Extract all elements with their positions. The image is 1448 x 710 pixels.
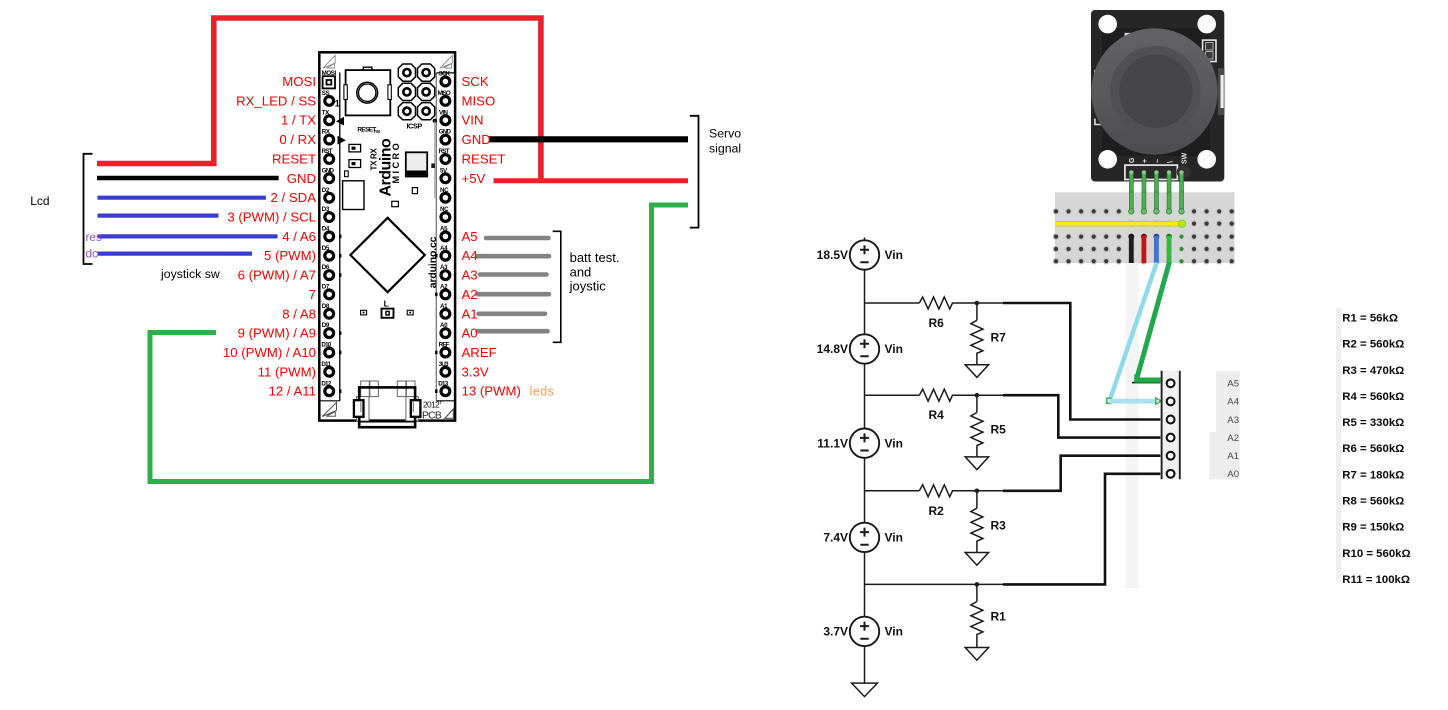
svg-text:1: 1 <box>335 98 340 108</box>
svg-text:R4 = 560kΩ: R4 = 560kΩ <box>1342 391 1404 403</box>
svg-text:SCK: SCK <box>462 74 489 89</box>
yellow wire <box>1055 221 1182 226</box>
voltage source V1 18.5V <box>850 240 879 269</box>
svg-text:and: and <box>570 265 592 280</box>
resistor R1 vertical <box>971 584 983 647</box>
svg-text:AREF: AREF <box>462 345 497 360</box>
svg-text:13 (PWM): 13 (PWM) <box>462 384 521 399</box>
svg-text:SW: SW <box>1182 152 1189 164</box>
svg-text:VIN: VIN <box>462 113 484 128</box>
svg-text:batt test.: batt test. <box>570 250 620 265</box>
hole grid <box>1053 208 1235 264</box>
svg-text:6 (PWM) / A7: 6 (PWM) / A7 <box>238 268 316 283</box>
svg-text:RX_LED / SS: RX_LED / SS <box>236 93 316 108</box>
small part below MICRO <box>412 188 417 194</box>
node dot 4 <box>975 582 980 587</box>
svg-text:SCK: SCK <box>439 71 451 78</box>
svg-text:A5: A5 <box>440 226 448 233</box>
wire lead A5 <box>1132 382 1160 384</box>
svg-text:RESET: RESET <box>272 152 316 167</box>
svg-text:GND: GND <box>322 167 335 174</box>
wire black GND to Lcd <box>97 176 279 181</box>
svg-text:A3: A3 <box>440 264 448 271</box>
svg-text:A5: A5 <box>462 229 478 244</box>
svg-text:1 / TX: 1 / TX <box>281 113 316 128</box>
joystick cap top <box>1119 54 1192 127</box>
svg-text:GND: GND <box>462 132 491 147</box>
divider labels <box>817 248 1007 638</box>
svg-text:D4: D4 <box>322 226 330 233</box>
svg-text:11.1V: 11.1V <box>817 436 848 450</box>
svg-text:Vin: Vin <box>885 436 903 450</box>
svg-text:A4: A4 <box>440 245 448 252</box>
svg-text:3 (PWM) / SCL: 3 (PWM) / SCL <box>227 210 316 225</box>
small passive left <box>345 171 349 177</box>
ground R7 <box>965 365 988 378</box>
joystick base square <box>1102 28 1210 156</box>
svg-text:A5: A5 <box>1227 379 1239 390</box>
gray trace line <box>434 121 436 198</box>
svg-text:R10 = 560kΩ: R10 = 560kΩ <box>1342 548 1410 560</box>
bracket servo signal <box>690 116 699 228</box>
resistor R3 vertical <box>971 491 983 553</box>
header pin A1 <box>1167 452 1175 460</box>
wire gray A1 <box>479 311 546 316</box>
ground R5 <box>965 457 988 470</box>
svg-text:5 (PWM): 5 (PWM) <box>264 248 316 263</box>
svg-text:\: \ <box>1168 161 1175 163</box>
wire green servo to pin9 loop <box>150 205 688 482</box>
pin pad MOSI (square) <box>323 76 335 88</box>
resistor R7 vertical <box>971 303 983 365</box>
pin labels rotated <box>1129 152 1189 164</box>
wire gray A0 <box>478 329 548 334</box>
node dot 3 <box>975 489 980 494</box>
mounting hole BR <box>1197 150 1216 169</box>
svg-text:NC: NC <box>440 206 449 213</box>
svg-text:R8 = 560kΩ: R8 = 560kΩ <box>1342 496 1404 508</box>
wire red +5V <box>494 178 689 183</box>
header pin A5 <box>1167 379 1175 387</box>
svg-text:R1: R1 <box>991 609 1007 623</box>
wire blue 5/PWM <box>98 252 253 256</box>
left pin strip line <box>339 73 341 401</box>
svg-text:A4: A4 <box>462 248 478 263</box>
wire rail V3-V4 <box>864 458 866 523</box>
wire green diagonal from breadboard <box>1137 263 1170 379</box>
svg-text:NC: NC <box>440 187 449 194</box>
svg-text:R5 = 330kΩ: R5 = 330kΩ <box>1342 417 1404 429</box>
svg-text:3.3V: 3.3V <box>462 364 489 379</box>
svg-text:+: + <box>1142 159 1149 163</box>
svg-text:14.8V: 14.8V <box>817 342 848 356</box>
header pin A3 <box>1167 416 1175 424</box>
pin tips in breadboard <box>1129 209 1134 214</box>
svg-text:GND: GND <box>439 129 452 136</box>
light strip behind header labels <box>1216 371 1240 432</box>
header pin A4 <box>1167 398 1175 406</box>
svg-text:signal: signal <box>709 142 741 156</box>
svg-text:18.5V: 18.5V <box>817 248 848 262</box>
svg-text:joystick sw: joystick sw <box>160 267 220 281</box>
pad left of L <box>361 310 367 315</box>
joystick silkscreen marks <box>1126 34 1138 40</box>
left pin holes SS..D12 <box>325 97 334 396</box>
svg-text:A1: A1 <box>440 303 448 310</box>
branch 4 wire <box>865 583 1006 585</box>
svg-text:Vin: Vin <box>885 531 903 545</box>
header labels <box>1227 379 1239 481</box>
svg-text:D10: D10 <box>321 342 332 349</box>
fiducial triangle top-left <box>323 55 335 68</box>
header strip background <box>1163 371 1179 480</box>
bracket batt test <box>553 231 561 342</box>
svg-text:A0: A0 <box>462 326 478 341</box>
svg-text:8 / A8: 8 / A8 <box>282 306 316 321</box>
wire gray A3 <box>480 272 547 277</box>
svg-text:Vin: Vin <box>885 625 903 639</box>
wire node1 to A3 <box>1003 303 1160 420</box>
svg-text:R2 = 560kΩ: R2 = 560kΩ <box>1342 339 1404 351</box>
wire to main ground <box>864 646 866 683</box>
svg-text:RX: RX <box>322 129 331 136</box>
header pin A0 <box>1167 470 1175 478</box>
fiducial triangle bottom-right <box>445 409 454 418</box>
svg-text:Lcd: Lcd <box>30 194 49 208</box>
side component white <box>1203 40 1216 61</box>
svg-text:9 (PWM) / A9: 9 (PWM) / A9 <box>238 326 316 341</box>
crystal <box>343 181 364 210</box>
wire gray A5 <box>486 236 549 241</box>
LED TX <box>349 144 361 152</box>
wire blue 4/A6 <box>98 234 278 238</box>
svg-text:Vin: Vin <box>885 342 903 356</box>
header pin A2 <box>1167 434 1175 442</box>
svg-text:leds: leds <box>530 385 555 399</box>
pad right of L <box>407 310 413 315</box>
LED L <box>382 309 394 318</box>
silkscreen tiny labels right <box>438 71 452 388</box>
svg-text:3U3: 3U3 <box>439 361 450 368</box>
connector blob <box>1177 165 1191 179</box>
joystick PCB <box>1091 10 1224 182</box>
svg-text:D7: D7 <box>322 284 330 291</box>
wire red RESET loop to +5V <box>97 18 541 181</box>
svg-text:RST: RST <box>322 148 333 155</box>
svg-text:MISO: MISO <box>462 93 496 108</box>
right pin strip line <box>435 73 437 401</box>
breadboard body <box>1055 192 1235 263</box>
arrow TX <box>336 117 344 126</box>
svg-text:A2: A2 <box>440 284 448 291</box>
joystick cap ring <box>1110 46 1201 137</box>
svg-text:TM: TM <box>374 129 381 134</box>
wire rail V2-V3 <box>864 364 866 429</box>
mounting hole TR <box>1197 15 1216 34</box>
svg-text:A2: A2 <box>1227 433 1239 444</box>
wire gray A2 <box>478 292 550 297</box>
svg-text:10 (PWM) / A10: 10 (PWM) / A10 <box>223 345 316 360</box>
svg-text:arduino.cc: arduino.cc <box>428 236 439 288</box>
svg-text:R7: R7 <box>991 331 1007 345</box>
bracket Lcd <box>84 154 93 264</box>
svg-text:2 / SDA: 2 / SDA <box>271 190 317 205</box>
header strip lines <box>1161 371 1163 480</box>
svg-text:R3: R3 <box>991 518 1007 532</box>
svg-text:Vin: Vin <box>885 248 903 262</box>
svg-text:R7 = 180kΩ: R7 = 180kΩ <box>1342 469 1404 481</box>
LED RX <box>349 160 361 168</box>
svg-text:D11: D11 <box>321 361 331 368</box>
svg-text:G: G <box>1129 157 1136 163</box>
svg-text:joystic: joystic <box>569 279 607 294</box>
voltage source V5 3.7V <box>850 617 879 646</box>
svg-text:7.4V: 7.4V <box>823 531 848 545</box>
joystick cap outer <box>1091 28 1217 154</box>
wire rail V1-V2 <box>864 270 866 335</box>
svg-text:A4: A4 <box>1227 397 1239 408</box>
right bump <box>1218 68 1225 115</box>
right pin holes SCK..D13 <box>441 77 450 396</box>
wire rail V4-V5 <box>864 552 866 617</box>
fiducial triangle top-right <box>440 55 452 68</box>
hookup wire red <box>1141 234 1147 240</box>
wire gray A4 <box>477 254 549 259</box>
voltage source V2 14.8V <box>850 334 879 363</box>
yellow wire end dot <box>1178 220 1185 227</box>
connector outline <box>1125 165 1178 179</box>
ground R1 <box>965 648 988 661</box>
wire blue 2/SDA <box>98 196 266 200</box>
USB connector <box>354 381 421 427</box>
svg-text:GND: GND <box>287 171 316 186</box>
ground R3 <box>965 553 988 566</box>
svg-text:RST: RST <box>439 148 450 155</box>
svg-text:VIN: VIN <box>439 109 448 116</box>
svg-text:R4: R4 <box>929 408 945 422</box>
svg-text:A1: A1 <box>1227 451 1239 462</box>
svg-text:D12: D12 <box>321 380 332 387</box>
svg-text:A2: A2 <box>462 287 478 302</box>
svg-text:D13: D13 <box>438 380 449 387</box>
svg-text:R3 = 470kΩ: R3 = 470kΩ <box>1342 365 1404 377</box>
wire node4 to A0 <box>1003 474 1160 585</box>
voltage source V4 7.4V <box>850 523 879 552</box>
joystick pins (green) <box>1129 170 1183 193</box>
arrow RX <box>338 136 346 145</box>
small part right of crystal <box>392 201 399 206</box>
svg-text:R1 = 56kΩ: R1 = 56kΩ <box>1342 313 1398 325</box>
light strip left of R table <box>1336 308 1342 579</box>
mounting hole TL <box>1098 15 1117 34</box>
svg-text:MICRO: MICRO <box>391 141 401 184</box>
wire blue 3/SCL <box>98 214 219 218</box>
svg-text:+5V: +5V <box>462 171 486 186</box>
svg-text:R6 = 560kΩ: R6 = 560kΩ <box>1342 443 1404 455</box>
wire cyan diagonal from breadboard <box>1111 263 1157 398</box>
svg-text:D6: D6 <box>322 264 330 271</box>
svg-text:D5: D5 <box>322 245 330 252</box>
hookup wire blue <box>1154 234 1160 240</box>
mounting hole BL <box>1098 150 1117 169</box>
node dot 1 <box>975 301 980 306</box>
voltage source V3 11.1V <box>850 429 879 458</box>
via dot <box>433 119 437 123</box>
board outline <box>319 52 455 420</box>
svg-text:R5: R5 <box>991 423 1007 437</box>
svg-text:~: ~ <box>1155 159 1162 163</box>
pin nubs <box>339 235 438 393</box>
svg-text:SS: SS <box>322 90 330 97</box>
svg-text:R2: R2 <box>929 504 945 518</box>
svg-text:REF: REF <box>439 342 450 349</box>
svg-text:2012⌜: 2012⌜ <box>423 400 443 410</box>
chip U1 <box>406 152 427 176</box>
svg-text:R9 = 150kΩ: R9 = 150kΩ <box>1342 522 1404 534</box>
wire green horizontal to A5 <box>1134 374 1160 383</box>
svg-text:R11 = 100kΩ: R11 = 100kΩ <box>1342 574 1410 586</box>
svg-text:L: L <box>384 299 389 309</box>
svg-text:MISO: MISO <box>438 90 451 97</box>
svg-text:A0: A0 <box>1227 469 1239 480</box>
ICSP header <box>398 64 434 120</box>
svg-text:R6: R6 <box>929 316 945 330</box>
svg-text:D3: D3 <box>322 206 330 213</box>
wire node3 to A1 <box>1003 456 1160 491</box>
wire main rail top stub <box>864 238 866 241</box>
light strip under breadboard <box>1126 263 1139 588</box>
svg-text:D9: D9 <box>322 322 330 329</box>
connection wires to header <box>1003 303 1160 584</box>
joystick pins over breadboard <box>1129 192 1183 210</box>
hookup wire black <box>1128 234 1134 240</box>
svg-text:A1: A1 <box>462 306 478 321</box>
diamond <box>350 218 424 292</box>
svg-text:12 / A11: 12 / A11 <box>269 384 316 399</box>
svg-text:D2: D2 <box>322 187 330 194</box>
svg-text:ICSP: ICSP <box>407 122 423 131</box>
svg-text:3.7V: 3.7V <box>823 625 848 639</box>
fiducial triangle bottom-left <box>322 403 336 417</box>
svg-text:Servo: Servo <box>709 127 741 141</box>
silkscreen tiny labels left <box>321 70 336 388</box>
svg-text:dc: dc <box>86 246 99 260</box>
branch 3 wire + resistor R2 <box>865 485 1005 497</box>
small part right of chip <box>431 163 435 168</box>
ground main <box>852 683 878 697</box>
svg-text:7: 7 <box>309 287 316 302</box>
svg-text:A3: A3 <box>462 268 478 283</box>
branch 1 wire + resistor R6 <box>865 297 1005 309</box>
svg-text:0 / RX: 0 / RX <box>279 132 316 147</box>
svg-text:A3: A3 <box>1227 415 1239 426</box>
wire cyan horizontal to A4 <box>1107 398 1111 403</box>
hookup wire green <box>1166 234 1172 240</box>
svg-text:D8: D8 <box>322 303 330 310</box>
svg-text:PCB: PCB <box>422 410 442 421</box>
svg-text:res: res <box>86 230 102 244</box>
reset button <box>346 70 391 115</box>
svg-text:MOSI: MOSI <box>322 70 337 77</box>
branch 2 wire + resistor R4 <box>865 389 1005 401</box>
svg-text:A0: A0 <box>440 322 448 329</box>
wire black GND to servo <box>489 136 688 142</box>
node dot 2 <box>975 393 980 398</box>
svg-text:11 (PWM): 11 (PWM) <box>258 364 316 379</box>
svg-text:MOSI: MOSI <box>282 74 316 89</box>
wire node2 to A2 <box>1003 395 1160 437</box>
resistor R5 vertical <box>971 395 983 457</box>
svg-text:4 / A6: 4 / A6 <box>282 229 316 244</box>
svg-text:RESET: RESET <box>462 152 506 167</box>
